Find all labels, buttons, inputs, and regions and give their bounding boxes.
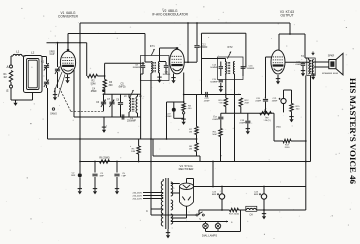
wire C12 top — [196, 23, 198, 45]
svg-text:.05MF: .05MF — [212, 119, 219, 121]
node field junction — [305, 140, 307, 142]
wire V2 cathode — [173, 74, 175, 78]
svg-text:1M: 1M — [189, 132, 192, 134]
transformer IFT2 box — [218, 57, 244, 80]
capacitor C15 — [219, 79, 223, 81]
wire R3 to osc bus — [104, 89, 106, 95]
wire heater link — [171, 217, 187, 219]
resistor R15 — [290, 104, 293, 112]
node AVC to R8 — [196, 138, 198, 140]
wire R15 top — [291, 90, 293, 104]
wire C20 to pot — [265, 102, 267, 113]
wire screen drop — [86, 43, 88, 76]
svg-text:50M: 50M — [212, 134, 216, 136]
capacitor C3a — [92, 173, 97, 175]
wire speaker top — [314, 61, 329, 63]
transformer IFT1 box — [141, 56, 170, 81]
svg-text:8MF: 8MF — [212, 194, 217, 196]
transformer T1 core — [165, 178, 167, 229]
wire R5 bottom — [138, 154, 140, 162]
wire C17 to R11 — [220, 120, 222, 129]
wire grid line — [47, 42, 87, 44]
trimmer arrow C1 — [44, 63, 49, 70]
coil L2 shield box — [24, 56, 43, 93]
wire gang top — [46, 57, 48, 65]
wire IFT2 pri bottom drop — [225, 74, 227, 98]
wire IFT1 to V2 cap — [160, 47, 178, 49]
wire AVC bus — [48, 138, 197, 140]
core osc coil — [131, 98, 133, 112]
ground T1 centre tap — [167, 232, 169, 235]
wire osc bottom bus — [74, 116, 141, 118]
svg-text:CAP: CAP — [50, 53, 55, 56]
coil L4 osc — [136, 97, 138, 114]
wire box drop — [199, 156, 201, 162]
wire osc ground drop — [103, 117, 105, 127]
wire tap 1 — [143, 192, 163, 194]
switch S mains — [196, 214, 198, 216]
capacitor C2 osc tuning — [55, 68, 60, 70]
core IFT1 — [153, 62, 155, 73]
resistor R10 — [224, 98, 227, 107]
capacitor C9 tracking — [121, 114, 123, 119]
svg-text:.05MF: .05MF — [295, 64, 302, 66]
wire lamp return — [206, 231, 241, 233]
resistor R1 — [9, 71, 12, 83]
wire lamp return up — [240, 210, 242, 232]
wire R1 to E — [10, 82, 12, 85]
svg-text:C8: C8 — [116, 100, 120, 102]
ground R15 — [291, 116, 293, 119]
wire C1 to C3 — [46, 68, 48, 81]
svg-text:RECTIFIER: RECTIFIER — [179, 167, 194, 171]
wire C14 top — [220, 62, 222, 67]
wire C23 lead — [221, 187, 223, 194]
ground V1 cathode — [67, 77, 69, 80]
wire bias line left — [199, 209, 230, 211]
coil T1 primary — [161, 181, 163, 226]
wire C14 bottom — [220, 69, 222, 76]
wire lamp2 top — [217, 222, 219, 224]
wire T2 primary top lead — [304, 34, 306, 58]
wire V3 cathode — [277, 75, 279, 78]
capacitor C17 — [218, 116, 223, 118]
node C24 bottom — [263, 209, 265, 211]
ground gang rotor — [54, 94, 56, 97]
svg-text:L3: L3 — [124, 95, 127, 98]
ground C22 — [302, 70, 304, 73]
node AVC junction — [79, 138, 81, 140]
ground antenna — [15, 100, 17, 103]
wire cathode corner — [187, 178, 194, 180]
node grid line crossing — [79, 42, 81, 44]
wire V1 plate line — [68, 33, 145, 35]
wire B+ raw bus — [194, 186, 306, 188]
wire IFT2 sec bottom — [234, 74, 236, 95]
node C3a tap — [94, 161, 96, 163]
wire gang dashed to osc — [71, 110, 104, 112]
terminal E — [10, 85, 13, 88]
resistor R12 — [239, 98, 242, 107]
svg-text:.05MF: .05MF — [239, 123, 246, 125]
wire tap 3 — [143, 198, 163, 200]
svg-text:S: S — [199, 218, 201, 221]
node junction V3 feed — [289, 33, 291, 35]
tube V1 6A8-G converter — [60, 51, 75, 74]
svg-text:OUTPUT: OUTPUT — [280, 14, 293, 18]
node gang coupling — [52, 108, 54, 110]
svg-text:C: C — [146, 209, 148, 213]
svg-text:S: S — [231, 222, 233, 224]
wire V1 cathode — [67, 75, 69, 78]
node R2 R3 — [104, 75, 106, 77]
wire C6 bottom — [103, 105, 105, 112]
node C24 crossing — [263, 209, 265, 211]
wire C6a down — [116, 177, 118, 188]
svg-text:C4: C4 — [92, 89, 96, 91]
svg-text:(MFD): (MFD) — [119, 85, 126, 88]
node bus crossing — [305, 161, 307, 163]
wire R18 to choke — [239, 209, 246, 211]
node C23 bottom — [221, 209, 223, 211]
wire C23 down — [221, 199, 223, 210]
wire R10 down — [225, 107, 227, 114]
wire C10 bottom — [142, 68, 144, 74]
wire C24 lead — [263, 187, 265, 194]
potentiometer R9 volume — [260, 112, 272, 115]
wire osc gang lead — [57, 43, 59, 67]
node heater tap — [212, 161, 214, 163]
node heater join — [212, 186, 214, 188]
svg-text:1MF: 1MF — [99, 176, 104, 178]
wire C3a top — [94, 162, 96, 173]
resistor R4 — [182, 103, 185, 110]
svg-text:C7: C7 — [107, 99, 111, 101]
svg-text:L2: L2 — [31, 51, 35, 55]
ground R4 chain — [183, 119, 185, 122]
wire V3 top cap lead — [278, 34, 280, 51]
svg-text:C9: C9 — [130, 118, 134, 120]
trimmer arrow C7 — [109, 100, 114, 107]
wire screen feed — [104, 63, 106, 79]
wire to R17 — [274, 140, 283, 142]
node plate riser tap — [187, 22, 189, 24]
ground C6a — [116, 188, 118, 191]
svg-text:IFT2: IFT2 — [227, 46, 233, 49]
choke CH — [246, 206, 257, 211]
wire C7 bottom — [111, 105, 113, 118]
ground C24 — [263, 213, 265, 216]
resistor R7 — [195, 127, 198, 135]
lamp P2 — [215, 223, 220, 228]
wire anode 2 — [171, 192, 180, 194]
node mains crossing — [150, 161, 152, 163]
wire diode feed — [245, 33, 247, 67]
arrow lamp feed — [226, 221, 228, 223]
wire C3a down — [94, 177, 96, 188]
wire R8 down — [196, 152, 198, 157]
wire C11 bottom — [165, 68, 167, 74]
svg-text:2000: 2000 — [285, 147, 291, 149]
tube V2 6B8-G IF AVC — [170, 49, 185, 74]
wire V2 plate — [184, 61, 188, 63]
wire box to gang — [42, 56, 47, 58]
capacitor C23 8MF — [219, 194, 224, 199]
wire B+ to filter — [305, 187, 307, 211]
resistor R5 — [137, 146, 140, 154]
capacitor C4 blob — [102, 89, 105, 92]
wire osc top bus — [104, 93, 141, 95]
coil T2 secondary — [313, 60, 314, 75]
capacitor C3 trimmer — [44, 81, 49, 83]
wire R11 down — [220, 137, 222, 162]
capacitor C10 — [141, 65, 145, 67]
wire bias drop — [166, 102, 168, 139]
wire V3 feed — [279, 33, 305, 35]
terminal A — [10, 65, 13, 68]
wire cathode net bus — [284, 89, 292, 91]
node R10 tap — [225, 94, 227, 96]
wire V4 heater — [186, 207, 188, 219]
wire cathode up — [186, 179, 188, 184]
wire R2 to R3 — [98, 75, 105, 77]
wire V1 osc grid diag — [54, 72, 62, 92]
coil L2 — [27, 59, 40, 90]
trimmer arrow IFT2 — [227, 52, 231, 59]
coil L1 — [13, 54, 22, 56]
wire C10 top — [142, 62, 144, 65]
node C6a tap — [116, 161, 118, 163]
coil T2 primary — [308, 60, 309, 75]
wire AVC feed — [140, 74, 142, 139]
wire C22 down — [302, 66, 304, 70]
svg-text:.01MF: .01MF — [203, 101, 210, 103]
svg-text:T2: T2 — [301, 55, 305, 58]
svg-text:CH: CH — [249, 215, 253, 217]
wire R5 top — [138, 139, 140, 146]
node R5 tap — [138, 161, 140, 163]
node osc gang junction — [57, 42, 59, 44]
wire field return — [310, 76, 312, 162]
wire screen riser V2 — [201, 33, 203, 94]
wire C2 down — [79, 178, 81, 189]
capacitor C21 electrolytic — [281, 98, 286, 103]
wire V1 osc anode diag — [58, 75, 65, 98]
wire C19 link — [174, 117, 184, 119]
wire R7 R8 link — [196, 135, 198, 144]
wire C8 top — [120, 94, 122, 102]
capacitor C19 blob — [172, 108, 176, 112]
coil IFT1 primary — [151, 62, 152, 74]
ground T2 secondary — [312, 74, 314, 77]
svg-text:R17 400Ω: R17 400Ω — [229, 214, 239, 216]
wire IFT1 sec bottom — [159, 73, 161, 77]
wire R7 feed — [196, 95, 198, 127]
wire mains switch lead — [150, 139, 152, 215]
wire corner to V3 — [289, 23, 291, 34]
resistor R2 — [88, 74, 98, 77]
svg-text:L1: L1 — [16, 50, 20, 54]
wire box left — [152, 139, 154, 156]
wire IFT1 pri bottom — [150, 73, 152, 139]
wire L4 bottom — [137, 113, 139, 117]
wire lamp1 top — [205, 222, 207, 224]
capacitor C12 screen — [194, 45, 199, 47]
ground C18 — [247, 128, 249, 131]
trimmer arrow C3 — [44, 80, 49, 87]
resistor R17 — [283, 139, 291, 142]
capacitor C1 tuning — [44, 65, 49, 67]
svg-text:1M: 1M — [3, 76, 6, 79]
svg-text:A: A — [7, 65, 10, 69]
wire L1 right — [22, 55, 26, 57]
coil T1 heater — [171, 214, 173, 224]
wire CT down — [167, 229, 169, 232]
svg-text:2MΩ: 2MΩ — [276, 127, 281, 129]
wire R12 down — [240, 107, 242, 114]
wire lamp feed — [171, 221, 228, 223]
svg-text:220-240V: 220-240V — [133, 195, 143, 197]
node R4 top — [183, 101, 185, 103]
wire C8 bottom — [120, 105, 122, 117]
wire AF bus — [221, 112, 272, 114]
svg-text:250MMF: 250MMF — [127, 121, 137, 123]
node lower bus left — [79, 161, 81, 163]
lamp P1 — [203, 223, 208, 228]
wire down to C2 — [79, 139, 81, 171]
svg-text:SPKR: SPKR — [328, 55, 335, 58]
svg-text:CONVERTER: CONVERTER — [58, 15, 79, 19]
capacitor C13 coupling — [205, 92, 207, 97]
transformer T2 box — [307, 58, 315, 76]
wire box bottom — [153, 155, 200, 157]
wire C11 top — [165, 62, 167, 65]
wire lamp1 bottom — [205, 229, 207, 232]
svg-text:¼M: ¼M — [219, 102, 223, 105]
capacitor C24 8MF — [261, 194, 266, 199]
svg-text:80MMF: 80MMF — [163, 74, 171, 76]
wire cathode down — [193, 179, 195, 187]
wire osc gang down — [57, 72, 59, 88]
wire V3 grid — [266, 56, 272, 58]
ground C15 — [220, 86, 222, 89]
wire coil shield down — [32, 93, 34, 101]
wire C6 top — [103, 94, 105, 101]
wire pot to riser — [271, 112, 274, 114]
resistor R6 — [100, 160, 110, 163]
wire bias line — [167, 101, 184, 103]
node diode junction — [183, 94, 185, 96]
wire V2 plate to IFT2 — [202, 58, 226, 60]
svg-text:C1: C1 — [41, 61, 45, 64]
wire tap 2 — [143, 195, 163, 197]
wire L4 top — [137, 94, 139, 96]
ground V3 cathode — [277, 78, 279, 81]
capacitor C7 trimmer — [109, 101, 114, 103]
svg-text:50MMF: 50MMF — [247, 68, 255, 70]
wire rotor ground lead — [54, 88, 56, 94]
svg-text:200-220V: 200-220V — [133, 199, 143, 201]
svg-text:IFT1: IFT1 — [150, 46, 155, 48]
wire V3 grid drop — [265, 57, 267, 99]
svg-text:.05MF: .05MF — [255, 101, 262, 103]
wire R4 down — [183, 111, 185, 112]
capacitor C18 — [245, 120, 250, 122]
wire IFT1 primary top — [145, 61, 152, 63]
ground V2 cathode — [173, 77, 175, 80]
wire V1 grid cap lead — [67, 34, 69, 52]
capacitor C11 — [164, 65, 168, 67]
wire C24 down — [263, 199, 265, 213]
coil T1 HT secondary — [171, 182, 173, 196]
wire V2 plate riser — [187, 23, 189, 62]
speaker — [329, 60, 336, 69]
wire B+ riser — [305, 141, 307, 187]
wire C15 down — [220, 83, 222, 86]
ground osc — [103, 127, 105, 130]
wire to IFT1 primary — [144, 34, 146, 63]
svg-text:300: 300 — [296, 109, 300, 111]
wire IFT1 sec top link — [160, 61, 167, 63]
svg-text:SPEAKER 600Ω: SPEAKER 600Ω — [322, 72, 339, 75]
wire to switch — [151, 214, 196, 216]
wire ground link — [11, 99, 33, 101]
wire tuning gang down lead — [47, 88, 49, 139]
svg-text:10M: 10M — [131, 151, 135, 153]
wire R15 down — [291, 112, 293, 117]
wire antenna up — [10, 56, 12, 65]
svg-text:C12: C12 — [201, 45, 206, 47]
wire detector bus — [184, 94, 241, 96]
svg-text:GANG: GANG — [50, 113, 57, 116]
wire V1 cathode to osc — [73, 70, 75, 117]
wire C7 top — [111, 94, 113, 101]
svg-text:IF-AVC-DEMODULATOR: IF-AVC-DEMODULATOR — [152, 13, 188, 17]
capacitor C6 padder — [101, 101, 106, 103]
wire heater drop — [212, 162, 214, 187]
svg-text:50M: 50M — [91, 82, 96, 85]
wire screen line — [105, 62, 145, 64]
node pri bottom — [150, 138, 152, 140]
capacitor C22 — [301, 63, 305, 65]
wire C3 down — [46, 85, 48, 88]
capacitor C8 osc — [118, 102, 123, 104]
wire C12 bottom — [196, 48, 198, 62]
coil IFT2 secondary — [233, 62, 234, 75]
svg-text:300: 300 — [109, 84, 114, 87]
wire to ground — [183, 114, 185, 119]
svg-text:25M: 25M — [244, 103, 248, 105]
wiper arrow R9 — [263, 109, 266, 114]
ground C3a — [94, 188, 96, 191]
coil L3 osc — [129, 98, 131, 113]
arrow T2 core — [312, 52, 315, 55]
wire C19 top — [173, 102, 175, 108]
coil IFT1 secondary — [158, 62, 159, 74]
wire C21 down — [283, 104, 285, 113]
svg-text:8MF: 8MF — [254, 194, 259, 196]
trimmer arrow osc — [129, 90, 133, 99]
ground IFT1 secondary — [159, 77, 161, 80]
wire gang dashed link — [60, 88, 71, 111]
wire IFT2 feed — [202, 32, 246, 34]
svg-text:R6 25MΩ: R6 25MΩ — [99, 157, 109, 160]
svg-text:GRID: GRID — [49, 52, 55, 54]
wire E down — [10, 88, 12, 100]
coil T1 rect heater — [171, 200, 173, 210]
wire R17 to B — [291, 140, 306, 142]
trimmer arrow C6 — [101, 100, 106, 107]
